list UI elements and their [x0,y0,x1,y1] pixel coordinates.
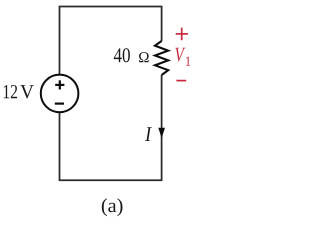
current arrowhead on right wire [158,128,165,139]
red polarity plus for V1 [176,28,188,41]
voltage source plus sign [55,80,64,89]
voltage source minus sign [55,102,64,104]
voltage label V1 [175,48,185,62]
current label I [145,127,152,141]
voltage source VS circle [41,75,79,113]
source unit label V [20,85,33,98]
resistor value label 40 [114,48,130,62]
source value label 12 [4,85,17,98]
voltage label V1 subscript 1 [186,57,190,66]
wire top (node from source + to resistor) [60,7,162,75]
wire bottom (node from resistor to source -) [60,75,162,180]
resistor unit label ohm [139,52,149,62]
caption (a) [102,198,123,216]
red polarity minus for V1 [176,80,186,82]
resistor R 40ohm zigzag [155,41,168,75]
